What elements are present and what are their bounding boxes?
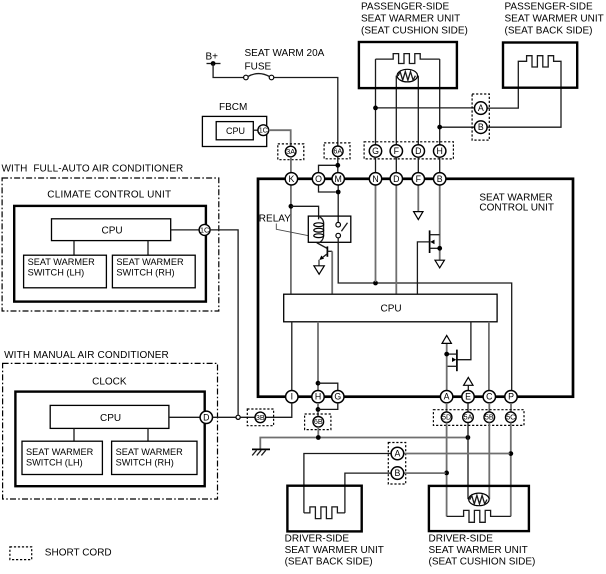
connector N <box>369 173 381 185</box>
clock box <box>15 392 204 487</box>
svg-text:CPU: CPU <box>102 225 123 236</box>
svg-text:B+: B+ <box>206 52 219 63</box>
wire CPU to Q3 gate <box>452 322 471 362</box>
svg-text:SHORT CORD: SHORT CORD <box>45 547 112 558</box>
arrow (Q3 drain up) <box>442 335 451 343</box>
svg-text:CPU: CPU <box>100 413 121 424</box>
wire B (driver) to 5D junction (gray) <box>404 472 446 474</box>
wire E to 5A <box>467 403 469 412</box>
CPU (seat warmer control unit) <box>284 294 497 322</box>
svg-text:6B: 6B <box>314 417 323 426</box>
wire N to relay output line (gray) <box>375 185 377 282</box>
wire P to 5C <box>510 403 512 412</box>
wire K to CPU (gray) with relay tap junction <box>289 185 294 293</box>
svg-text:RELAY: RELAY <box>259 214 291 225</box>
wire CPU to I <box>291 322 293 391</box>
wire M to relay contact <box>336 185 341 223</box>
transistor Q2 (MOSFET) <box>430 230 443 253</box>
wire relay coil feed <box>291 206 319 219</box>
wire Q3 drain/source column to A (gray) <box>444 344 449 391</box>
svg-text:G: G <box>334 392 341 402</box>
wire C to CPU (gray) <box>488 322 490 391</box>
wire CPU to H (gray) with jumper junction <box>316 322 321 391</box>
wire climate CPU to RH switch <box>147 241 149 256</box>
connector C <box>483 391 495 403</box>
driver cushion unit box <box>429 486 529 531</box>
wire 6A to M and O jumper <box>319 157 341 173</box>
svg-text:B: B <box>478 122 484 132</box>
wire climate CPU to 1C <box>171 229 199 231</box>
svg-text:SWITCH (LH): SWITCH (LH) <box>28 268 85 278</box>
svg-text:DRIVER-SIDE: DRIVER-SIDE <box>429 534 494 545</box>
wire A (driver) to back unit heater left lead <box>304 454 391 513</box>
wire clock CPU to RH switch <box>147 428 149 441</box>
wire clock CPU to D <box>169 416 200 418</box>
svg-text:SEAT WARMER: SEAT WARMER <box>116 447 184 457</box>
wire A to passenger back unit left lead with heater element <box>487 56 561 128</box>
svg-text:O: O <box>315 174 322 184</box>
svg-text:CLOCK: CLOCK <box>92 377 127 388</box>
passenger cushion unit box <box>359 42 457 88</box>
fuse F1 SEAT WARM 20A <box>244 48 325 80</box>
arrow (E output up) <box>464 377 473 385</box>
junction circle (full-auto/manual) <box>236 415 240 419</box>
svg-text:CPU: CPU <box>381 304 402 315</box>
ground line (gray) with junctions <box>260 435 470 449</box>
svg-text:N: N <box>372 174 378 184</box>
connector D (top) <box>412 145 424 157</box>
svg-text:5A: 5A <box>464 413 473 422</box>
svg-text:CLIMATE CONTROL UNIT: CLIMATE CONTROL UNIT <box>47 189 171 200</box>
CPU (clock) <box>50 405 169 428</box>
connector A (passenger) <box>475 102 488 115</box>
connector G (bottom) <box>332 391 344 403</box>
short cord 3B <box>247 409 273 426</box>
svg-text:5D: 5D <box>442 413 451 422</box>
connector B (passenger) <box>475 121 488 134</box>
connector F (top) <box>390 145 402 157</box>
svg-text:CONTROL UNIT: CONTROL UNIT <box>479 203 554 214</box>
svg-text:1C: 1C <box>259 126 268 135</box>
svg-text:D: D <box>393 174 399 184</box>
wire heater element left lead to G with A-tap junction <box>375 59 377 145</box>
svg-text:PASSENGER-SIDE: PASSENGER-SIDE <box>505 1 593 12</box>
svg-text:DRIVER-SIDE: DRIVER-SIDE <box>285 534 350 545</box>
seat warmer control unit label <box>479 193 554 214</box>
short cord 5D 5A 5B 5C box <box>433 410 524 426</box>
arrow (Q2 source) <box>435 260 444 268</box>
wire heater element right lead to H with B-tap junction <box>439 59 441 145</box>
svg-text:(SEAT CUSHION SIDE): (SEAT CUSHION SIDE) <box>429 556 536 567</box>
svg-text:P: P <box>508 392 514 402</box>
svg-text:(SEAT CUSHION SIDE): (SEAT CUSHION SIDE) <box>361 25 468 36</box>
connector 1C (climate) <box>199 224 210 235</box>
wire Q2 gate to CPU <box>417 240 434 294</box>
wire A to junction on G lead <box>373 106 474 111</box>
svg-text:CPU: CPU <box>226 126 245 136</box>
svg-text:H: H <box>437 146 443 156</box>
wire B to Q2 (gray) <box>439 185 441 260</box>
svg-text:SEAT WARMER: SEAT WARMER <box>26 447 94 457</box>
climate control unit box <box>14 206 206 302</box>
svg-text:B: B <box>394 468 400 478</box>
wire clock D to junction circle <box>213 416 237 418</box>
svg-text:H: H <box>315 392 321 402</box>
wire relay contact to N junction and P <box>338 238 512 391</box>
thermostat (passenger cushion) <box>397 69 417 82</box>
connector B (bus) <box>434 173 446 185</box>
svg-text:I: I <box>291 392 293 402</box>
svg-text:5B: 5B <box>485 413 494 422</box>
short cord G F D H <box>364 142 453 159</box>
connector E <box>462 391 474 403</box>
relay RY1 <box>259 214 351 249</box>
svg-text:WITH FULL-AUTO AIR CONDITIONE: WITH FULL-AUTO AIR CONDITIONER <box>2 164 184 175</box>
wire B to junction on H lead <box>437 125 474 130</box>
connector D (bus) <box>390 173 402 185</box>
CPU (climate control) <box>52 219 171 241</box>
wire 5B to driver cushion thermostat (gray) <box>488 423 490 500</box>
wire B (driver) to back unit heater right lead <box>345 473 391 513</box>
wire C to 5B <box>488 403 490 412</box>
svg-text:FBCM: FBCM <box>219 102 247 113</box>
wire 3A to K <box>290 157 292 173</box>
short cord 6A <box>324 143 350 159</box>
connector 5D <box>441 412 452 423</box>
svg-text:SEAT WARMER UNIT: SEAT WARMER UNIT <box>285 545 384 556</box>
short cord A/B (passenger) <box>472 94 489 140</box>
svg-text:SWITCH (LH): SWITCH (LH) <box>26 458 83 468</box>
connector D (clock) <box>200 411 212 423</box>
passenger-side seat warmer unit (seat cushion side) label <box>361 1 468 36</box>
wire fuse to connector 6A <box>274 78 338 146</box>
wire F stub (gray) <box>417 185 419 212</box>
seat warmer switch (LH) climate <box>24 255 107 288</box>
svg-text:SEAT WARMER: SEAT WARMER <box>28 257 96 267</box>
wires G F D H to bus <box>376 157 440 173</box>
CPU (FBCM) <box>216 122 253 140</box>
connector A (bottom) <box>440 391 452 403</box>
svg-text:D: D <box>415 146 421 156</box>
wire A (driver) to 5C junction (gray) <box>404 453 510 455</box>
svg-text:G: G <box>372 146 379 156</box>
arrow (F output) <box>414 212 423 220</box>
svg-text:D: D <box>203 412 209 422</box>
wire climate CPU to LH switch <box>73 241 75 256</box>
connector M <box>332 173 344 185</box>
seat warmer switch (RH) clock <box>112 441 197 474</box>
svg-text:SEAT WARMER: SEAT WARMER <box>116 257 184 267</box>
svg-text:SEAT WARM 20A: SEAT WARM 20A <box>245 48 325 59</box>
wire A to 5D <box>446 403 448 412</box>
driver-side seat warmer unit (seat back side) label <box>285 534 384 568</box>
svg-text:3B: 3B <box>256 413 265 422</box>
svg-text:SEAT WARMER UNIT: SEAT WARMER UNIT <box>505 13 604 24</box>
short cord 3A <box>278 144 304 160</box>
passenger-side seat warmer unit (seat back side) label <box>505 1 604 36</box>
svg-text:SEAT WARMER UNIT: SEAT WARMER UNIT <box>361 13 460 24</box>
wire H to 6B (gray) with G jumper junction <box>316 403 321 417</box>
svg-text:5C: 5C <box>506 413 515 422</box>
driver back unit box <box>287 486 361 532</box>
connector 5B <box>484 412 495 423</box>
svg-text:K: K <box>288 174 294 184</box>
heater element (passenger cushion) <box>376 54 440 64</box>
ground (Q1 emitter) <box>314 266 324 274</box>
svg-text:6A: 6A <box>333 147 342 156</box>
connector F (bus) <box>412 173 424 185</box>
svg-text:F: F <box>394 146 400 156</box>
svg-text:A: A <box>444 392 450 402</box>
wire O to M jumper (below bus) <box>319 185 336 192</box>
connector 1C (FBCM) <box>258 125 269 136</box>
wire junction to 3B to I (gray) <box>240 403 292 417</box>
thermostat (driver cushion) <box>469 493 489 506</box>
svg-text:C: C <box>486 392 493 402</box>
svg-text:SEAT WARMER UNIT: SEAT WARMER UNIT <box>429 545 528 556</box>
short cord 6B <box>305 414 331 430</box>
wire 5C to driver cushion heater with A-tap junction <box>508 423 513 517</box>
svg-text:1C: 1C <box>200 225 209 234</box>
wire 5A to driver cushion thermostat <box>467 423 469 500</box>
heater element (driver cushion) <box>447 510 511 522</box>
seat warmer switch (RH) climate <box>112 255 195 288</box>
thermostat leads (passenger cushion) <box>396 76 418 145</box>
svg-text:SWITCH (RH): SWITCH (RH) <box>116 268 174 278</box>
connector I <box>286 391 298 403</box>
wire 1C climate down to junction circle <box>210 230 238 415</box>
connector 5C <box>506 412 517 423</box>
svg-text:A: A <box>394 449 400 459</box>
connector O <box>312 173 324 185</box>
connector G (top) <box>369 145 381 157</box>
svg-text:B: B <box>437 174 443 184</box>
connector A (driver) <box>391 447 404 460</box>
seat warmer control unit box <box>258 179 573 397</box>
svg-text:A: A <box>478 103 484 113</box>
wire 6B to ground line <box>317 427 319 437</box>
wire clock CPU to LH switch <box>73 428 75 441</box>
transistor Q3 (MOSFET) <box>447 350 457 372</box>
svg-text:F: F <box>416 174 422 184</box>
svg-text:E: E <box>465 392 471 402</box>
manual section dash-dot box <box>3 363 218 499</box>
connector P <box>505 391 517 403</box>
connector B (driver) <box>391 467 404 480</box>
FBCM unit <box>202 102 266 147</box>
node B+ <box>206 52 221 66</box>
svg-text:(SEAT BACK SIDE): (SEAT BACK SIDE) <box>285 556 373 567</box>
svg-text:WITH MANUAL AIR CONDITIONER: WITH MANUAL AIR CONDITIONER <box>4 350 169 361</box>
svg-text:SWITCH (RH): SWITCH (RH) <box>116 458 174 468</box>
wire G to H jumper (below bus) <box>318 403 338 409</box>
heater element (driver back) <box>304 507 345 519</box>
wire Q1 base to CPU (gray) <box>331 251 333 293</box>
wire H to G jumper (above bus) <box>318 383 338 390</box>
svg-text:PASSENGER-SIDE: PASSENGER-SIDE <box>361 1 449 12</box>
wire 5D to driver cushion heater with B-tap junction <box>444 423 449 517</box>
connector H (bottom) <box>312 391 324 403</box>
wire CPU to 1C <box>253 129 258 131</box>
connector H (top) <box>434 145 446 157</box>
ground (chassis) <box>252 449 270 455</box>
passenger back unit box <box>503 43 577 88</box>
short cord legend box <box>10 547 32 560</box>
transistor Q1 (relay driver) <box>319 246 332 260</box>
seat warmer switch (LH) clock <box>22 441 102 474</box>
wire D to CPU (gray) <box>395 185 397 293</box>
wire Q1 emitter to ground <box>318 260 320 266</box>
full-auto section dash-dot box <box>2 178 219 311</box>
svg-text:M: M <box>335 174 342 184</box>
svg-text:3A: 3A <box>286 147 295 156</box>
connector 5A <box>463 412 474 423</box>
svg-text:FUSE: FUSE <box>245 62 272 73</box>
driver-side seat warmer unit (seat cushion side) label <box>429 534 536 568</box>
short cord A/B (driver) <box>388 443 405 485</box>
wire E stub <box>467 385 469 390</box>
wire 1C to 3A <box>269 130 291 146</box>
svg-text:(SEAT BACK SIDE): (SEAT BACK SIDE) <box>505 25 593 36</box>
connector K <box>285 173 297 185</box>
wire B+ to fuse <box>213 64 244 78</box>
